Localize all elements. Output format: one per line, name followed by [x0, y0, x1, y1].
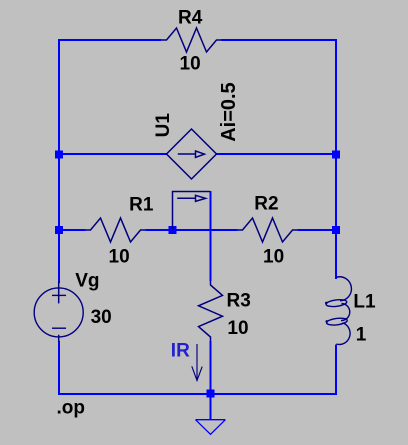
svg-text:.op: .op — [57, 398, 86, 419]
svg-text:10: 10 — [227, 318, 248, 339]
svg-text:U1: U1 — [153, 113, 174, 138]
svg-text:L1: L1 — [353, 292, 376, 313]
svg-text:10: 10 — [180, 53, 201, 74]
svg-text:Ai=0.5: Ai=0.5 — [218, 82, 240, 141]
svg-text:1: 1 — [356, 324, 367, 345]
svg-text:30: 30 — [91, 307, 112, 328]
svg-text:R2: R2 — [254, 194, 278, 215]
svg-text:IR: IR — [171, 341, 190, 362]
svg-text:Vg: Vg — [75, 271, 99, 292]
svg-text:10: 10 — [263, 247, 284, 268]
svg-text:R1: R1 — [129, 195, 154, 216]
svg-text:R3: R3 — [227, 291, 251, 312]
svg-text:R4: R4 — [178, 8, 203, 29]
svg-text:10: 10 — [109, 247, 130, 268]
